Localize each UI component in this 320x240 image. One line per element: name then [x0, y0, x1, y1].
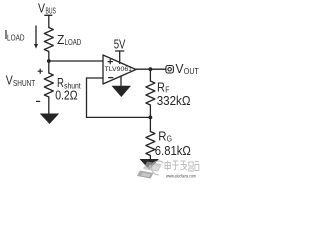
wire opamp V- to ground — [120, 77, 122, 87]
svg-text:LOAD: LOAD — [7, 32, 25, 42]
terminal VOUT inner circle — [168, 68, 172, 72]
watermark logo flag upper — [143, 162, 162, 172]
svg-text:5V: 5V — [114, 38, 126, 52]
svg-text:0.2Ω: 0.2Ω — [55, 89, 77, 103]
node 5V supply tick — [116, 50, 124, 52]
current arrow ILOAD — [35, 26, 37, 44]
svg-text:SHUNT: SHUNT — [13, 78, 35, 88]
resistor RG — [146, 132, 155, 156]
svg-text:V: V — [38, 2, 46, 16]
wire RG to ground — [149, 156, 151, 160]
watermark CJK text 电子发烧友 — [165, 161, 199, 172]
svg-text:LOAD: LOAD — [65, 37, 82, 47]
wire Rshunt to ground — [48, 97, 50, 114]
wire 5V to opamp V+ — [119, 51, 121, 64]
ground G3 below RG — [140, 159, 160, 170]
wire ZLOAD to junction — [48, 52, 50, 74]
resistor Rshunt — [44, 73, 53, 97]
ground G1 below Rshunt — [40, 114, 60, 125]
plus sign VSHUNT — [38, 69, 43, 74]
svg-text:OUT: OUT — [184, 66, 199, 76]
wire junction to opamp +input — [49, 60, 103, 62]
junction dot RF/RG feedback — [149, 116, 153, 120]
wire RF to feedback junction — [149, 105, 151, 132]
wire VBUS to ZLOAD — [48, 15, 50, 27]
arrowhead ILOAD — [34, 44, 38, 49]
svg-text:Z: Z — [57, 33, 65, 47]
svg-text:G: G — [167, 134, 172, 144]
ground G2 below opamp — [112, 86, 132, 97]
svg-text:TLV9061: TLV9061 — [105, 66, 133, 73]
svg-text:R: R — [158, 130, 166, 144]
junction dot output/RF — [149, 67, 153, 71]
svg-text:BUS: BUS — [46, 6, 57, 16]
node VBUS terminal tick — [45, 14, 52, 16]
svg-text:332kΩ: 332kΩ — [157, 94, 191, 108]
terminal VOUT square — [166, 66, 174, 74]
wire feedback bottom horizontal — [87, 116, 151, 118]
wire feedback left vertical — [86, 78, 88, 117]
wire output junction down to RF — [149, 69, 151, 81]
wire opamp minus input — [87, 77, 104, 79]
resistor RF — [146, 81, 155, 105]
watermark logo circle — [152, 161, 164, 175]
opamp minus sign — [109, 77, 113, 79]
minus sign VSHUNT — [36, 100, 40, 102]
junction dot node A (shunt/+in) — [47, 59, 51, 63]
opamp plus sign — [108, 59, 112, 63]
wire opamp output to VOUT terminal — [136, 68, 166, 70]
watermark logo flag lower — [137, 171, 154, 179]
svg-text:www.elecfans.com: www.elecfans.com — [166, 174, 196, 179]
resistor ZLOAD — [44, 28, 53, 52]
op-amp U1 TLV9061 triangle — [103, 55, 136, 84]
svg-text:6.81kΩ: 6.81kΩ — [155, 144, 191, 158]
svg-text:R: R — [157, 81, 165, 95]
svg-text:F: F — [165, 85, 169, 95]
